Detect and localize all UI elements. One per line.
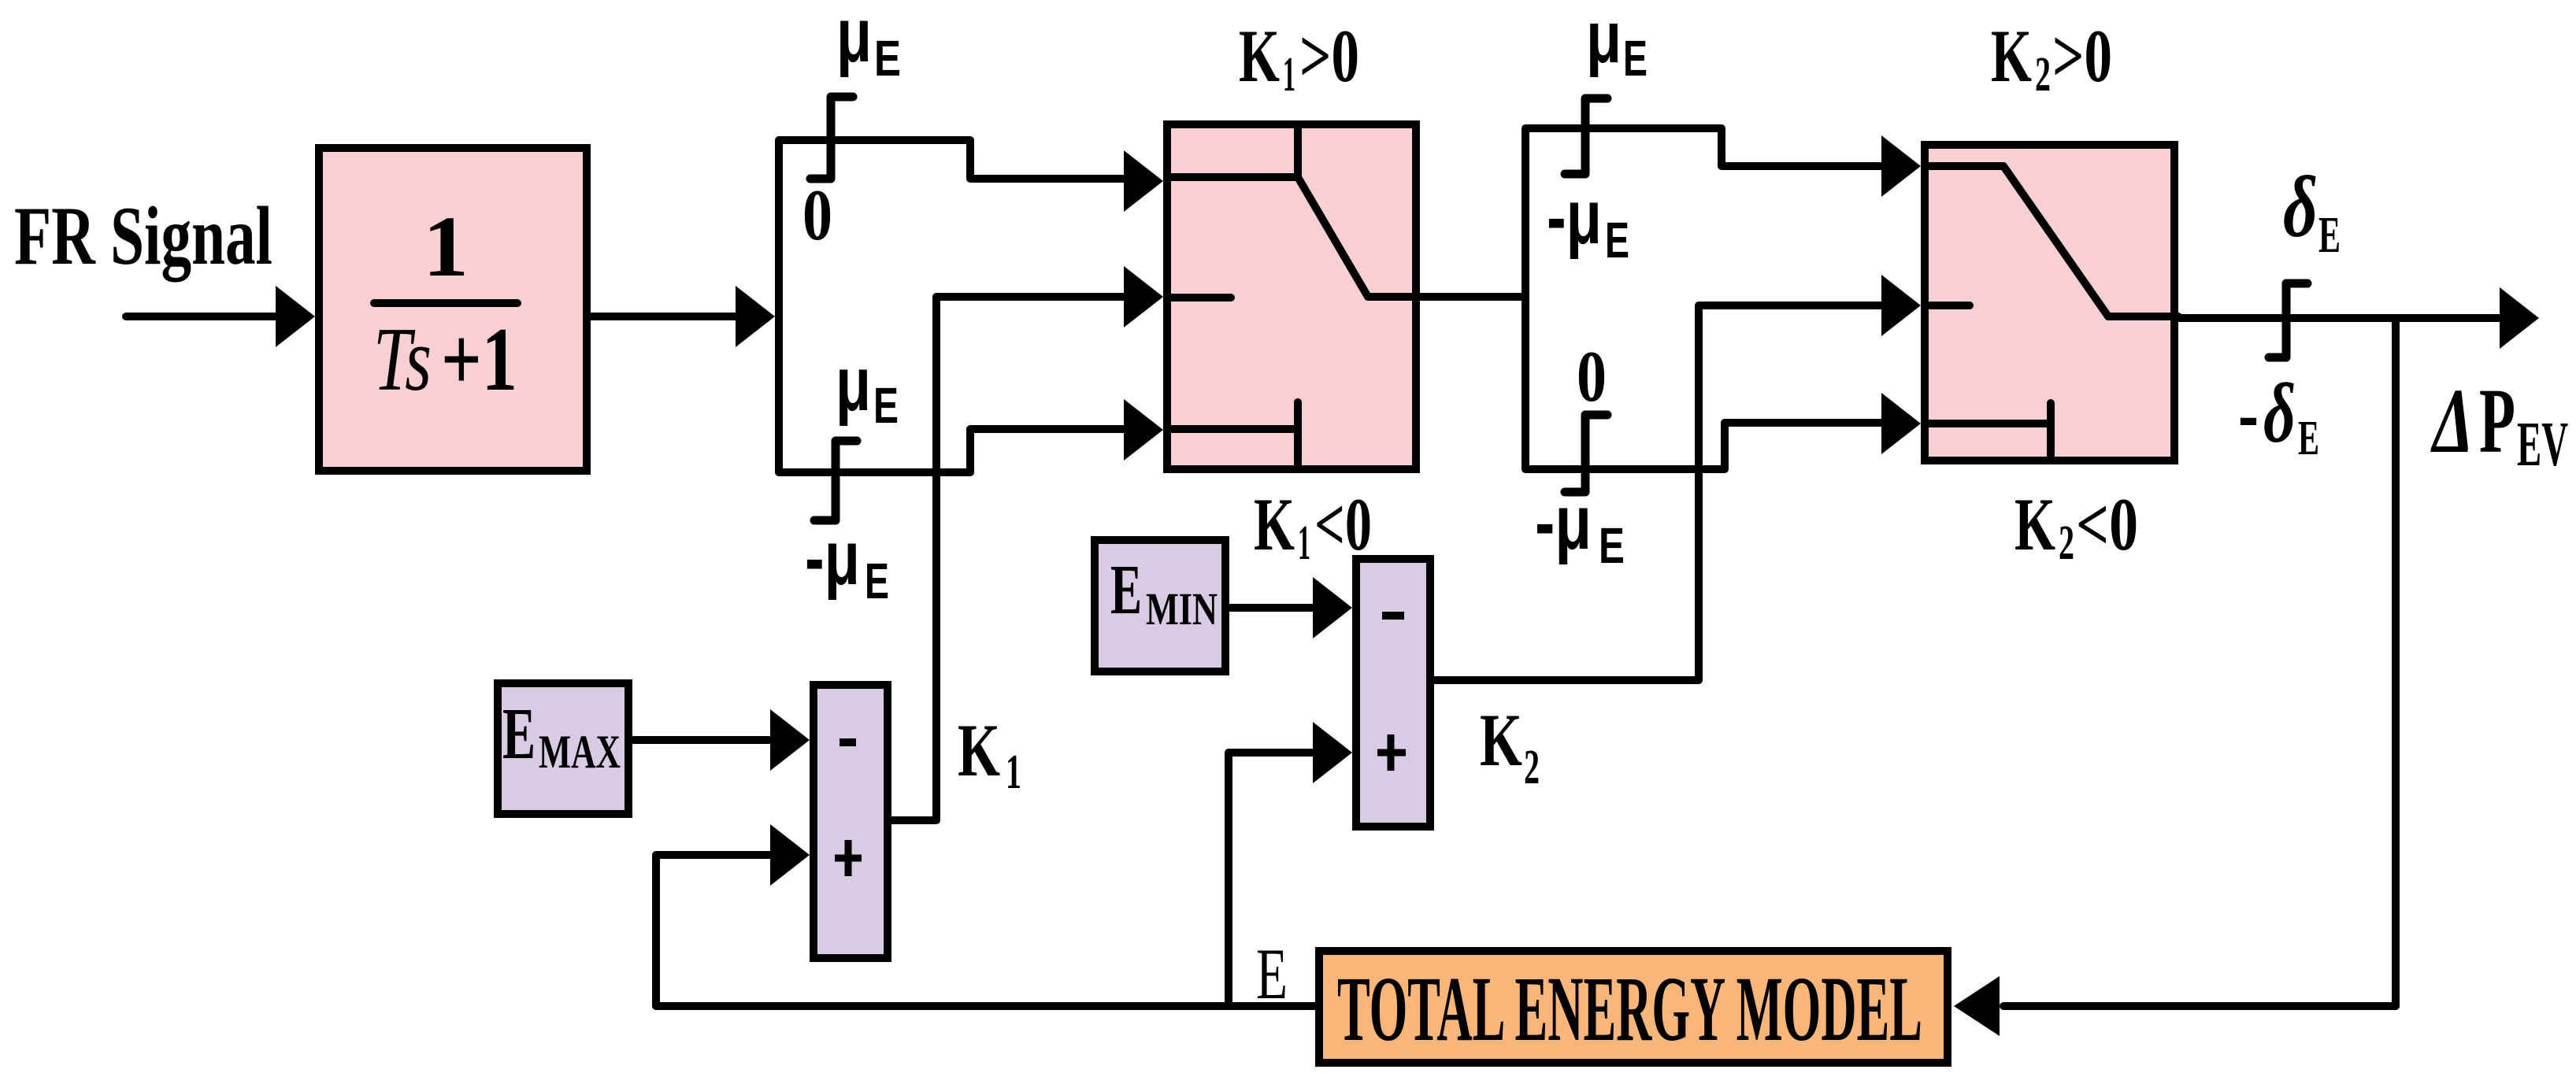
svg-text:K: K: [1239, 14, 1280, 98]
svg-text:EV: EV: [2517, 410, 2568, 479]
svg-text:E: E: [1110, 551, 1142, 629]
svg-text:E: E: [1256, 934, 1288, 1014]
svg-text:μ: μ: [836, 341, 871, 427]
svg-text:MIN: MIN: [1146, 583, 1218, 635]
svg-text:K: K: [958, 709, 1000, 792]
svg-text:0: 0: [1577, 336, 1607, 416]
svg-text:1: 1: [1006, 746, 1021, 799]
svg-text:2: 2: [1524, 741, 1540, 794]
svg-text:E: E: [1605, 212, 1629, 268]
svg-text:μ: μ: [1586, 0, 1622, 78]
svg-text:+1: +1: [441, 309, 517, 409]
svg-text:E: E: [2298, 412, 2319, 465]
svg-text:δ: δ: [2263, 367, 2296, 461]
svg-text:-μ: -μ: [1547, 174, 1602, 260]
svg-text:1: 1: [1283, 48, 1295, 102]
svg-text:K: K: [2014, 483, 2055, 566]
svg-text:1: 1: [423, 198, 469, 294]
svg-text:TOTAL ENERGY MODEL: TOTAL ENERGY MODEL: [1337, 957, 1922, 1060]
svg-text:>0: >0: [2052, 14, 2112, 98]
svg-text:E: E: [502, 694, 536, 775]
svg-text:Δ: Δ: [2430, 369, 2474, 472]
svg-text:-: -: [2238, 367, 2259, 461]
svg-text:<0: <0: [2076, 483, 2138, 566]
svg-text:MAX: MAX: [539, 726, 621, 778]
svg-text:E: E: [865, 553, 889, 609]
svg-text:E: E: [874, 30, 901, 87]
svg-text:1: 1: [1298, 516, 1310, 570]
svg-text:E: E: [1623, 30, 1648, 87]
svg-text:<0: <0: [1314, 483, 1372, 566]
svg-text:K: K: [1254, 483, 1295, 566]
svg-text:-μ: -μ: [805, 515, 860, 601]
svg-text:E: E: [1599, 517, 1625, 574]
svg-text:-μ: -μ: [1535, 479, 1592, 565]
svg-text:μ: μ: [836, 0, 872, 78]
svg-text:FR Signal: FR Signal: [14, 190, 272, 282]
svg-text:Ts: Ts: [373, 309, 432, 409]
svg-text:δ: δ: [2283, 159, 2318, 256]
svg-text:K: K: [1480, 698, 1522, 782]
svg-text:E: E: [2318, 206, 2341, 264]
svg-text:>0: >0: [1299, 14, 1359, 98]
svg-text:2: 2: [2035, 48, 2051, 102]
svg-text:E: E: [873, 377, 899, 434]
svg-text:K: K: [1991, 14, 2032, 98]
svg-text:2: 2: [2059, 516, 2074, 570]
svg-text:0: 0: [802, 175, 832, 255]
svg-text:P: P: [2479, 369, 2515, 472]
